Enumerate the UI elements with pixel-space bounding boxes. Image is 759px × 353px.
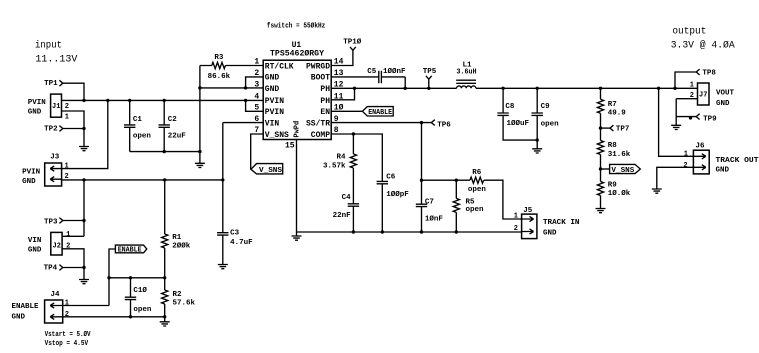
svg-text:4.7uF: 4.7uF (230, 239, 253, 247)
svg-text:R6: R6 (472, 169, 482, 177)
svg-text:7: 7 (254, 126, 259, 135)
svg-text:TP7: TP7 (616, 126, 630, 134)
svg-text:1ØØpF: 1ØØpF (386, 190, 409, 199)
svg-text:31.6k: 31.6k (608, 151, 631, 159)
svg-text:GND: GND (28, 246, 42, 254)
svg-text:22uF: 22uF (168, 132, 187, 140)
svg-text:13: 13 (334, 69, 344, 78)
svg-text:2: 2 (254, 69, 259, 78)
svg-text:PH: PH (320, 85, 330, 94)
svg-text:open: open (133, 132, 152, 140)
svg-text:J7: J7 (699, 92, 707, 100)
svg-text:VOUT: VOUT (716, 90, 735, 98)
svg-text:PVIN: PVIN (22, 168, 40, 176)
svg-text:15: 15 (285, 142, 295, 151)
svg-text:C1Ø: C1Ø (133, 286, 147, 295)
svg-text:1: 1 (66, 231, 70, 239)
svg-text:TP1Ø: TP1Ø (343, 38, 362, 47)
svg-text:V_SNS: V_SNS (265, 131, 289, 140)
svg-text:1: 1 (684, 151, 688, 159)
svg-text:R7: R7 (608, 101, 617, 109)
svg-text:11..13V: 11..13V (35, 55, 77, 66)
svg-text:8: 8 (334, 126, 339, 135)
svg-text:C9: C9 (541, 103, 551, 111)
svg-text:R1: R1 (172, 234, 182, 242)
svg-text:GND: GND (22, 178, 36, 186)
svg-text:GND: GND (543, 229, 557, 237)
svg-text:EN: EN (320, 108, 330, 117)
svg-text:ENABLE: ENABLE (118, 247, 142, 255)
svg-text:TP5: TP5 (423, 68, 437, 76)
svg-text:2: 2 (690, 92, 694, 100)
svg-text:1ØØuF: 1ØØuF (507, 119, 530, 128)
svg-text:PVIN: PVIN (265, 108, 284, 117)
svg-text:C4: C4 (342, 194, 352, 202)
svg-text:1Ø: 1Ø (334, 104, 344, 113)
svg-text:2: 2 (514, 225, 518, 233)
svg-text:14: 14 (334, 58, 344, 67)
svg-text:TRACK OUT: TRACK OUT (716, 157, 759, 165)
svg-text:GND: GND (265, 85, 280, 94)
svg-text:J6: J6 (696, 143, 706, 151)
svg-text:2: 2 (65, 311, 69, 319)
svg-text:22nF: 22nF (333, 212, 352, 220)
svg-text:1ØnF: 1ØnF (425, 214, 444, 223)
svg-text:PWRGD: PWRGD (306, 62, 330, 71)
svg-text:C3: C3 (230, 229, 240, 237)
svg-text:TPS5462ØRGY: TPS5462ØRGY (270, 49, 324, 58)
svg-text:C8: C8 (505, 103, 515, 111)
svg-text:C7: C7 (425, 199, 434, 207)
svg-text:4: 4 (254, 93, 259, 102)
svg-text:1: 1 (65, 163, 69, 171)
svg-text:J2: J2 (53, 243, 61, 251)
svg-text:R4: R4 (336, 153, 346, 161)
svg-text:1: 1 (65, 300, 69, 308)
svg-text:output: output (672, 27, 706, 38)
svg-text:R9: R9 (608, 182, 618, 190)
svg-text:J4: J4 (51, 291, 61, 299)
svg-text:input: input (35, 40, 62, 52)
svg-text:TP3: TP3 (44, 219, 58, 227)
svg-text:TP4: TP4 (44, 265, 58, 273)
svg-text:2: 2 (65, 103, 69, 111)
svg-text:ENABLE: ENABLE (12, 303, 40, 311)
svg-text:49.9: 49.9 (608, 109, 627, 117)
svg-text:TRACK IN: TRACK IN (543, 219, 580, 227)
svg-text:3.3V @ 4.ØA: 3.3V @ 4.ØA (671, 40, 735, 52)
svg-text:VIN: VIN (265, 119, 280, 128)
svg-text:BOOT: BOOT (311, 74, 330, 83)
svg-text:J5: J5 (523, 207, 533, 215)
svg-text:open: open (468, 186, 487, 194)
svg-text:open: open (466, 206, 485, 214)
svg-text:2: 2 (66, 243, 70, 251)
svg-text:57.6k: 57.6k (173, 300, 196, 308)
svg-text:fswitch = 55ØkHz: fswitch = 55ØkHz (267, 21, 326, 30)
svg-text:PVIN: PVIN (28, 99, 46, 107)
svg-text:open: open (541, 121, 560, 129)
svg-text:SS/TR: SS/TR (306, 119, 330, 128)
svg-text:C1: C1 (133, 116, 143, 124)
svg-text:PwPd: PwPd (293, 121, 301, 138)
svg-text:GND: GND (716, 100, 730, 108)
svg-text:86.6k: 86.6k (208, 73, 231, 81)
svg-text:9: 9 (334, 115, 339, 124)
svg-text:R2: R2 (173, 291, 183, 299)
svg-text:5: 5 (254, 104, 259, 113)
svg-text:1: 1 (254, 58, 259, 67)
svg-text:V_SNS: V_SNS (611, 167, 634, 175)
svg-text:ENABLE: ENABLE (368, 109, 392, 117)
svg-text:1Ø.Øk: 1Ø.Øk (608, 189, 631, 198)
svg-text:2: 2 (65, 173, 69, 181)
svg-text:3: 3 (254, 81, 259, 90)
svg-text:COMP: COMP (311, 131, 330, 140)
svg-text:TP2: TP2 (44, 126, 58, 134)
svg-text:TP9: TP9 (703, 115, 717, 123)
svg-text:11: 11 (334, 93, 344, 102)
svg-text:Vstop = 4.5V: Vstop = 4.5V (45, 340, 89, 348)
svg-text:GND: GND (716, 166, 730, 174)
svg-text:J1: J1 (52, 103, 60, 111)
svg-text:1: 1 (65, 113, 69, 121)
svg-text:1: 1 (690, 82, 694, 90)
svg-text:RT/CLK: RT/CLK (265, 62, 294, 71)
svg-text:PVIN: PVIN (265, 97, 284, 106)
svg-text:1ØØnF: 1ØØnF (383, 67, 406, 76)
svg-text:Vstart = 5.ØV: Vstart = 5.ØV (45, 330, 92, 339)
svg-text:C5: C5 (367, 68, 377, 76)
svg-text:R3: R3 (214, 54, 224, 62)
svg-text:3.57k: 3.57k (323, 162, 346, 170)
svg-text:J3: J3 (50, 154, 60, 162)
svg-text:2: 2 (683, 162, 687, 170)
svg-text:2ØØk: 2ØØk (172, 242, 191, 251)
svg-text:V_SNS: V_SNS (259, 167, 282, 175)
svg-text:TP8: TP8 (702, 70, 716, 78)
svg-text:1: 1 (514, 213, 518, 221)
svg-text:C2: C2 (168, 116, 178, 124)
svg-text:PH: PH (320, 97, 330, 106)
svg-text:TP6: TP6 (437, 122, 451, 130)
svg-text:GND: GND (28, 109, 42, 117)
svg-text:TP1: TP1 (44, 80, 58, 88)
svg-text:R8: R8 (608, 142, 618, 150)
svg-text:VIN: VIN (28, 237, 42, 245)
svg-text:GND: GND (12, 314, 26, 322)
svg-text:3.6uH: 3.6uH (457, 68, 477, 76)
svg-text:12: 12 (334, 81, 344, 90)
svg-text:C6: C6 (386, 173, 396, 181)
svg-text:6: 6 (254, 115, 259, 124)
svg-text:open: open (133, 306, 152, 314)
svg-text:GND: GND (265, 74, 280, 83)
